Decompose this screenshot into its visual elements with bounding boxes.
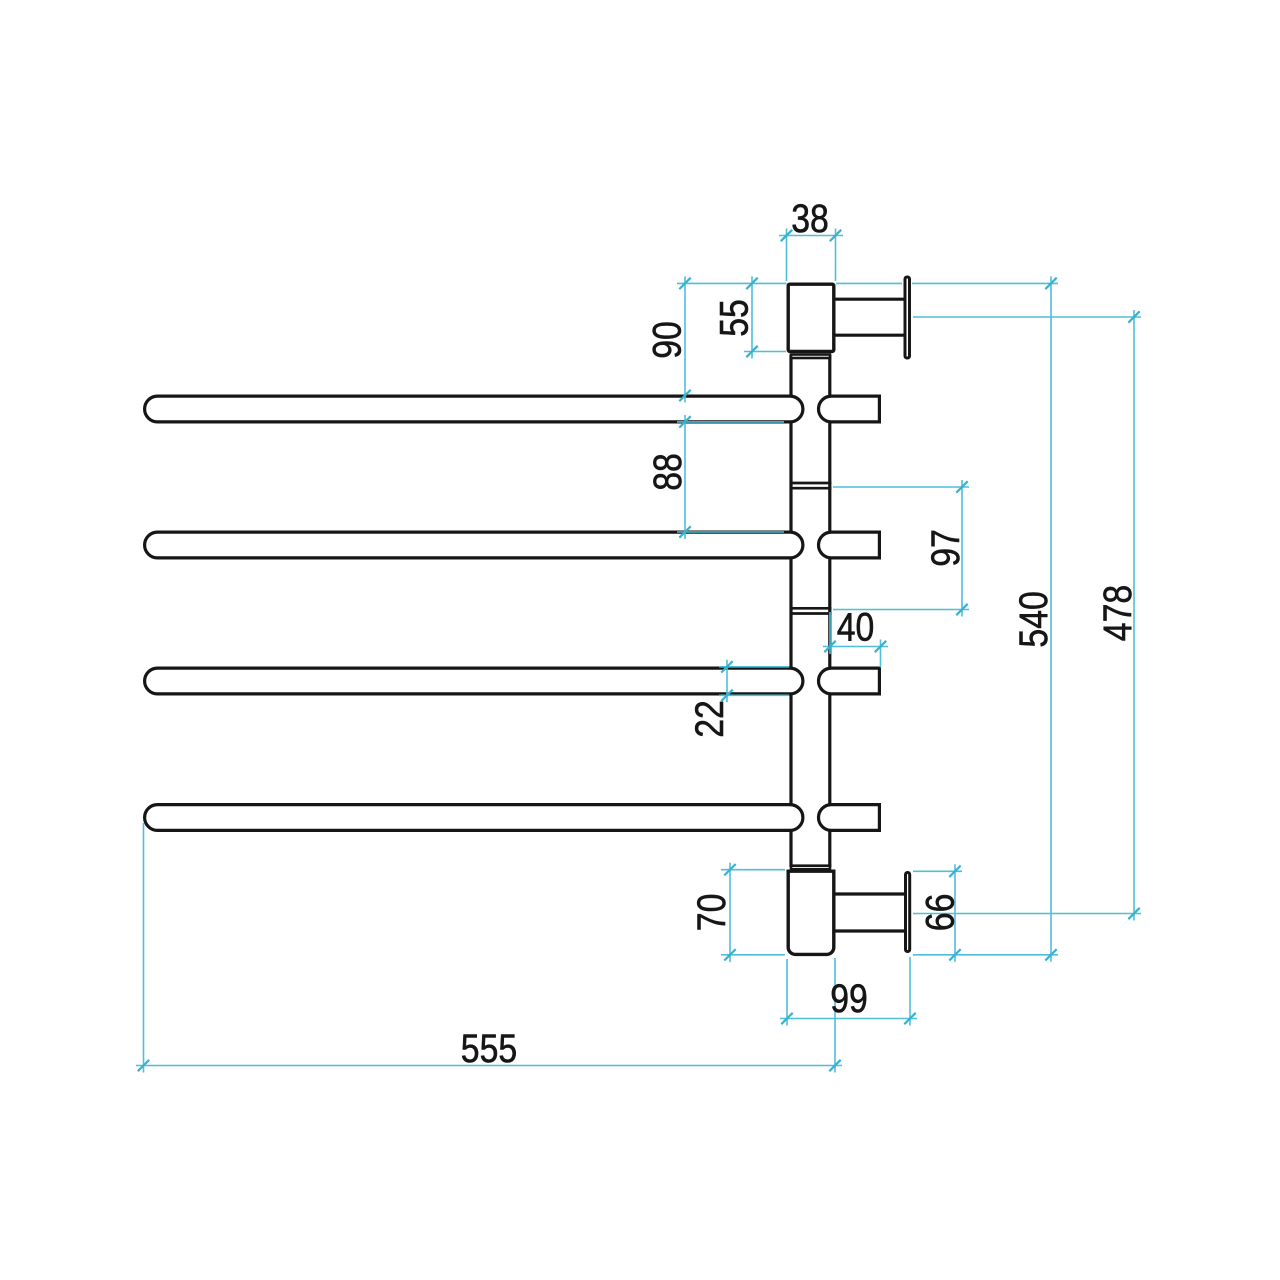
ticks 99 bbox=[781, 1013, 792, 1024]
svg-text:90: 90 bbox=[646, 321, 690, 359]
bottom wall flange bbox=[906, 873, 910, 952]
dim 70 extensions bbox=[721, 869, 785, 871]
dim 478 extensions bbox=[913, 316, 1141, 318]
towel bar 2 bbox=[145, 532, 803, 558]
ticks dim 38 bbox=[781, 230, 792, 241]
tick 55 bottom bbox=[746, 346, 757, 357]
stub 4 bbox=[819, 805, 880, 831]
shared bottom extension y=954.8 right bbox=[913, 954, 1058, 956]
stub 3 bbox=[819, 668, 880, 694]
svg-text:88: 88 bbox=[646, 453, 690, 491]
towel bar 3 bbox=[145, 668, 803, 694]
ticks 70 bbox=[724, 864, 735, 875]
dim 55 bottom extension bbox=[744, 351, 786, 353]
stub 1 bbox=[819, 396, 880, 422]
ticks 40 bbox=[824, 641, 835, 652]
shared top extension line y=283.4 bbox=[677, 282, 787, 284]
towel bar 1 bbox=[145, 396, 803, 422]
dim 88 line bbox=[684, 415, 686, 539]
ticks 88 bbox=[679, 416, 690, 427]
svg-text:70: 70 bbox=[690, 894, 734, 932]
svg-text:540: 540 bbox=[1012, 591, 1056, 647]
bottom mount body bbox=[788, 871, 834, 954]
dim 99 line bbox=[780, 1018, 917, 1020]
dim 55 line bbox=[751, 276, 753, 358]
dim 66 top extension bbox=[913, 870, 962, 872]
svg-text:478: 478 bbox=[1096, 585, 1140, 641]
stub 2 bbox=[819, 532, 880, 558]
tick 540 bottom bbox=[1045, 949, 1056, 960]
dim 40 line bbox=[823, 646, 888, 648]
ticks 478 bbox=[1128, 311, 1139, 322]
dim 540 line bbox=[1050, 276, 1052, 961]
ticks 555 bbox=[138, 1060, 149, 1071]
dim 70 line bbox=[729, 863, 731, 963]
towel bar 4 bbox=[145, 805, 803, 831]
swivel joint collar 1 bbox=[790, 483, 832, 488]
top mount body bbox=[788, 284, 834, 351]
ticks 22 bbox=[721, 661, 732, 672]
dim 555 extensions bbox=[143, 823, 145, 1073]
top wall flange bbox=[905, 277, 910, 358]
dim 38 extensions bbox=[786, 229, 788, 282]
dim 97 line bbox=[961, 480, 963, 617]
svg-text:97: 97 bbox=[924, 529, 968, 567]
ticks 97 bbox=[956, 481, 967, 492]
svg-text:22: 22 bbox=[688, 700, 732, 738]
bottom mount collar bbox=[791, 866, 830, 870]
swivel joint collar 2 bbox=[790, 608, 832, 613]
dim 40 extensions bbox=[829, 612, 831, 654]
dim 38 line bbox=[779, 235, 843, 237]
dim 97 extensions bbox=[833, 486, 969, 488]
dim 22 line bbox=[726, 660, 728, 703]
svg-text:38: 38 bbox=[791, 197, 829, 241]
dim 99 extensions bbox=[786, 959, 788, 1026]
ticks top ext y=283.4: 90, 55, 540 bbox=[679, 278, 690, 289]
vertical post bbox=[791, 355, 830, 867]
svg-text:99: 99 bbox=[830, 977, 868, 1021]
dim 66 line bbox=[954, 864, 956, 962]
svg-text:55: 55 bbox=[713, 299, 757, 337]
dimension tick slashes bbox=[138, 230, 1140, 1071]
dim 478 line bbox=[1133, 310, 1135, 921]
top mount collar bbox=[791, 355, 830, 359]
dim 555 line bbox=[136, 1065, 842, 1067]
dim 90 line bbox=[684, 276, 686, 402]
svg-text:66: 66 bbox=[919, 894, 963, 932]
tick 90 bottom bbox=[679, 390, 690, 401]
top wall arm bbox=[833, 299, 905, 335]
svg-text:555: 555 bbox=[461, 1027, 517, 1071]
dim 22 extensions bbox=[719, 666, 789, 668]
dim 88 extensions bbox=[677, 421, 784, 423]
ticks 66 bbox=[949, 866, 960, 877]
svg-text:40: 40 bbox=[837, 606, 875, 650]
bottom wall arm bbox=[833, 894, 905, 931]
